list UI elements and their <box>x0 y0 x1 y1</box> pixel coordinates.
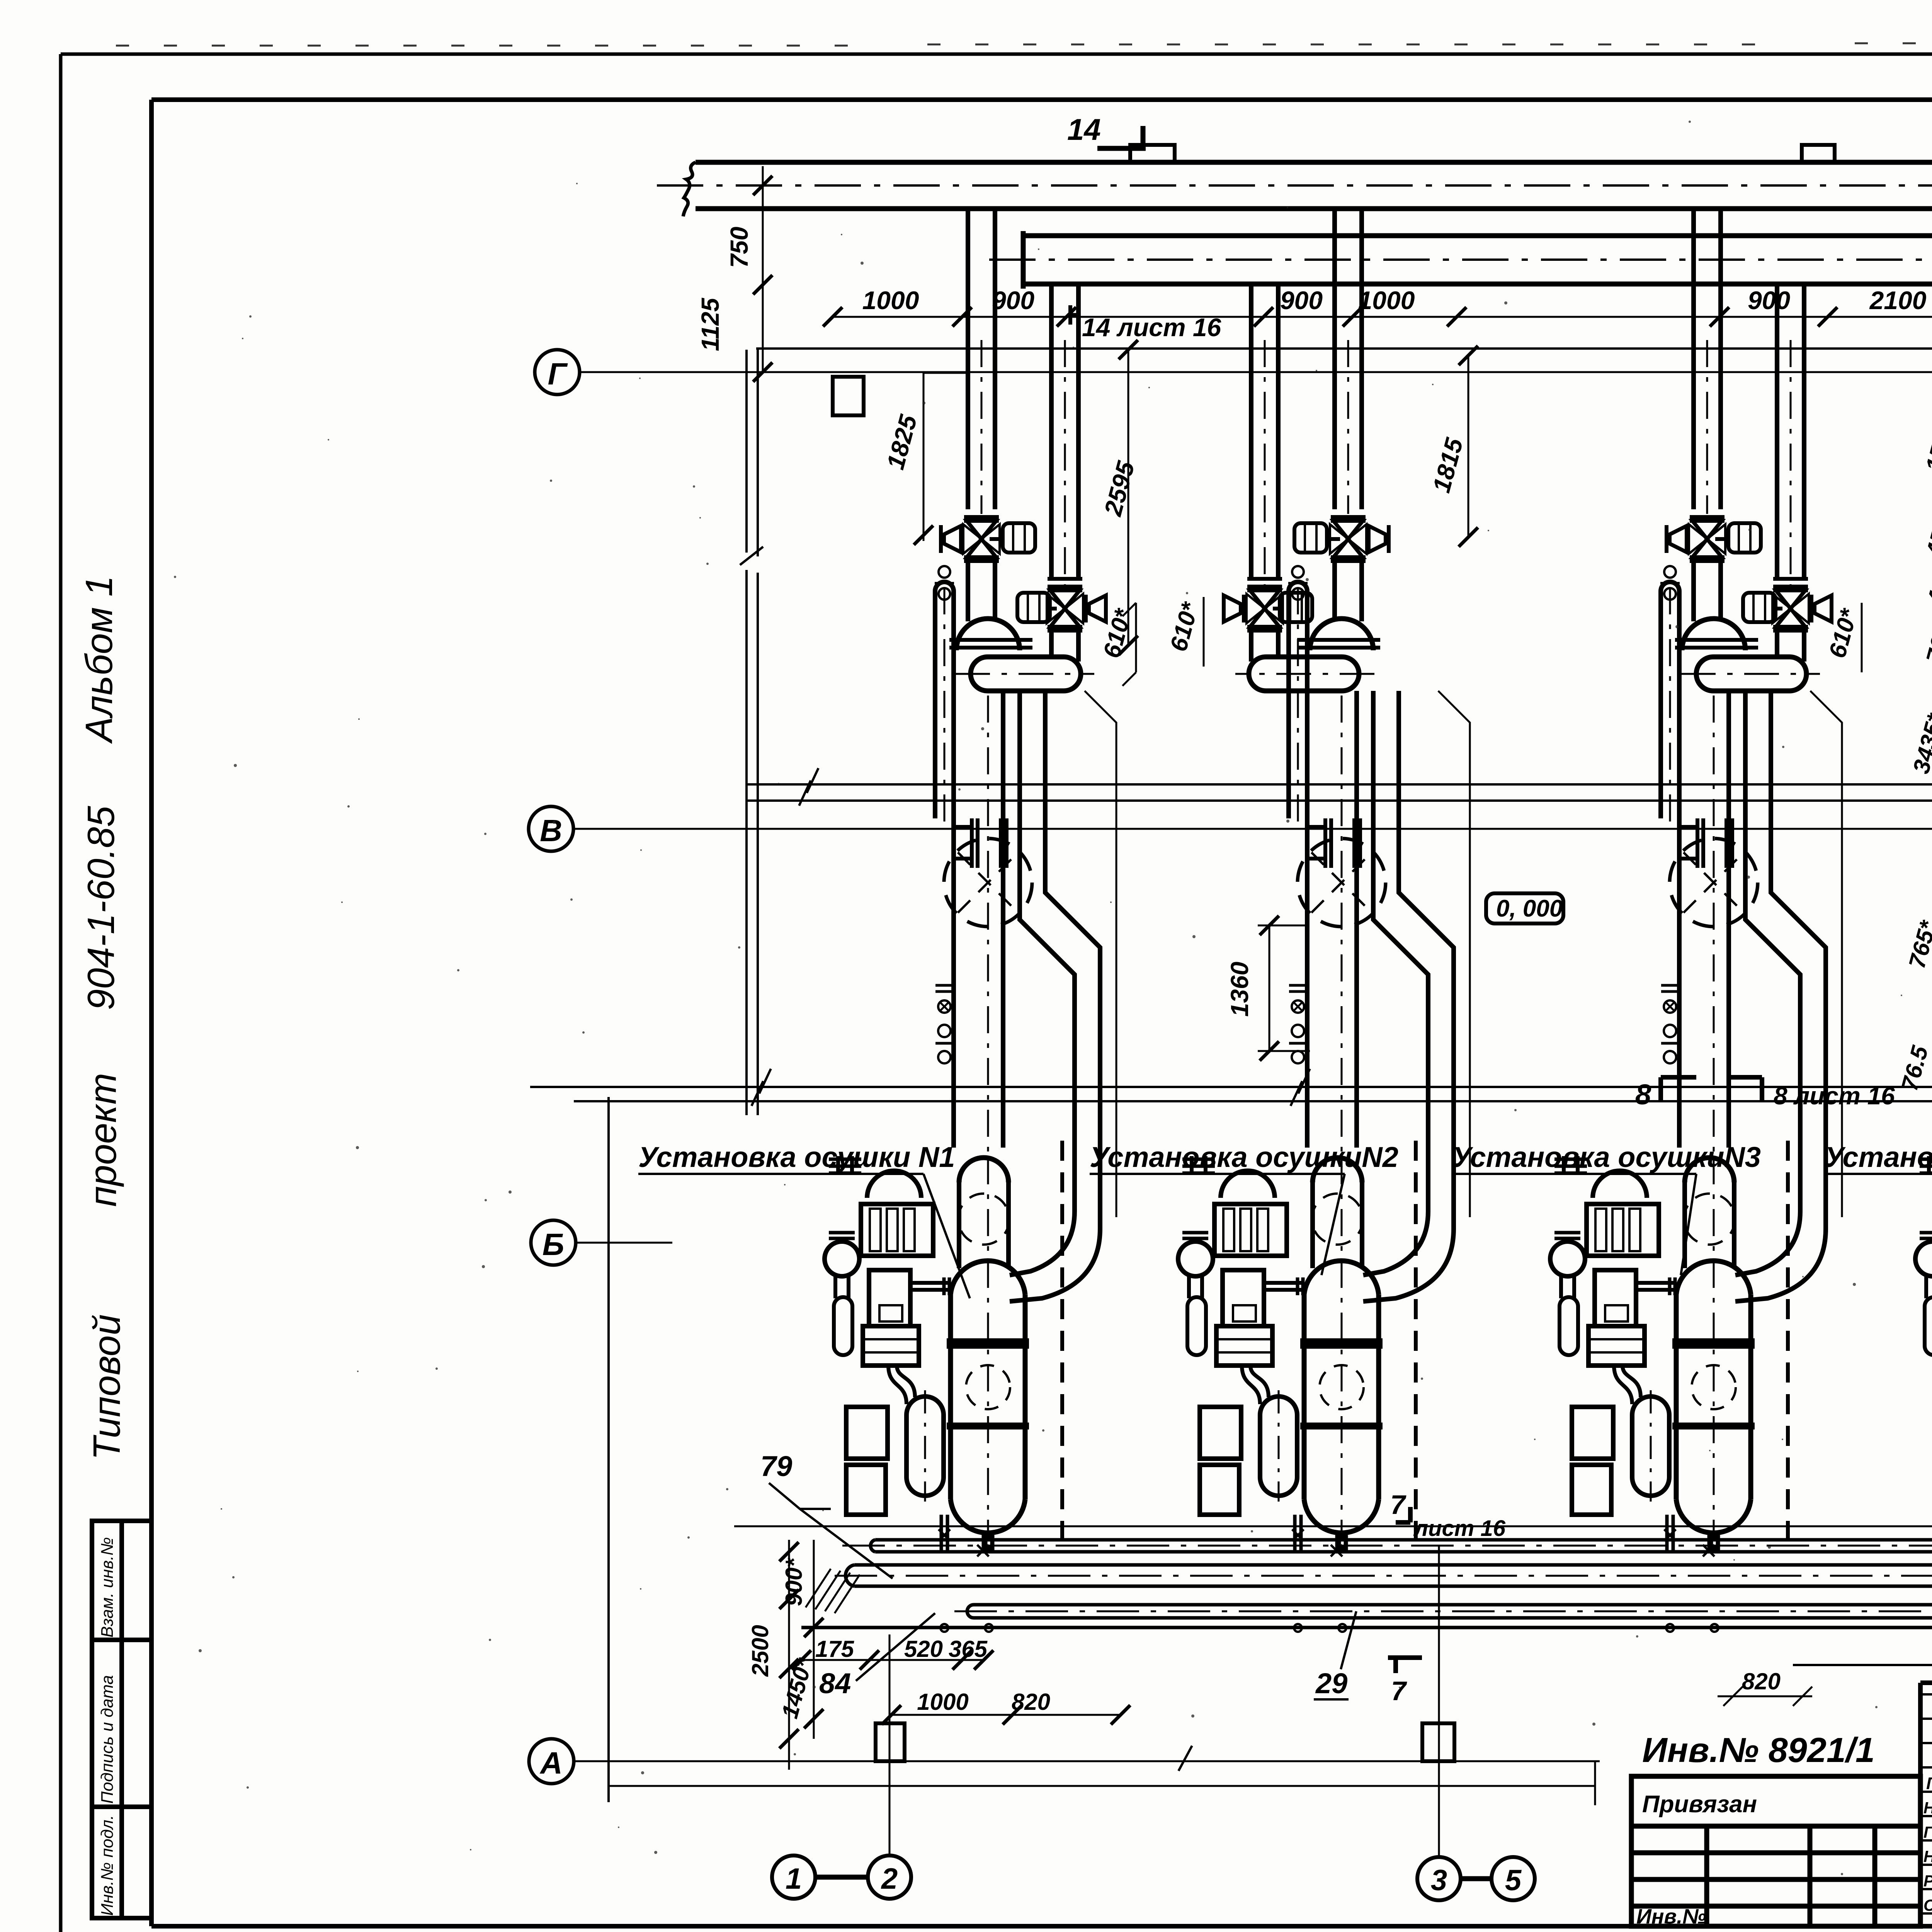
svg-text:Инв.№ подл.: Инв.№ подл. <box>98 1815 117 1916</box>
svg-text:1125: 1125 <box>696 298 724 351</box>
left storage stamp box <box>92 1521 151 1918</box>
svg-text:175: 175 <box>815 1636 855 1662</box>
svg-text:765*: 765* <box>1904 917 1932 971</box>
svg-text:820: 820 <box>1012 1689 1050 1715</box>
svg-text:Установка осушкиN2: Установка осушкиN2 <box>1090 1141 1398 1173</box>
svg-text:750: 750 <box>725 227 753 268</box>
left pipe end caps <box>845 1540 974 1618</box>
svg-text:2100: 2100 <box>1869 286 1927 315</box>
svg-text:В: В <box>540 813 562 848</box>
unit labels <box>638 1141 1932 1173</box>
axis A <box>529 1739 574 1784</box>
drying unit 3 <box>1550 340 1842 1632</box>
svg-text:900: 900 <box>992 286 1034 315</box>
svg-text:84: 84 <box>819 1667 851 1699</box>
svg-text:0, 000: 0, 000 <box>1496 895 1563 922</box>
svg-text:29: 29 <box>1315 1667 1347 1699</box>
left vertical wall line <box>607 1097 610 1802</box>
overhead pipe 2 (lower, ось на отм 5,565) <box>1023 231 1932 289</box>
svg-text:8: 8 <box>1635 1078 1651 1111</box>
axis Г <box>535 350 1932 395</box>
svg-text:ГИП: ГИП <box>1926 1774 1932 1793</box>
dim 1815 (unit3) <box>1468 355 1469 537</box>
column boxes on axis A <box>876 1723 905 1761</box>
svg-text:2: 2 <box>881 1862 898 1895</box>
svg-text:Привязан: Привязан <box>1642 1791 1757 1818</box>
hatch at manifold left end <box>806 1569 860 1613</box>
title block left tables <box>1631 1776 1920 1926</box>
svg-text:1000: 1000 <box>1358 286 1415 315</box>
svg-text:Б: Б <box>543 1227 565 1262</box>
svg-text:Установка осушки N1: Установка осушки N1 <box>638 1141 955 1173</box>
svg-text:1450*: 1450* <box>777 1655 818 1721</box>
drying unit 4 <box>1915 340 1932 1632</box>
overhead pipe 127 (upper) <box>683 158 1932 216</box>
svg-text:1815: 1815 <box>1427 435 1469 496</box>
svg-text:450*: 450* <box>1921 506 1932 560</box>
rotated dims right side <box>1896 374 1932 1094</box>
riser extensions above wall line <box>968 209 1932 350</box>
svg-text:лист 16: лист 16 <box>1413 1516 1506 1541</box>
grid verticals to circles <box>889 1546 1439 1858</box>
svg-text:7: 7 <box>1390 1490 1406 1520</box>
svg-text:Установка осушкиN3: Установка осушкиN3 <box>1452 1141 1761 1173</box>
svg-text:765*: 765* <box>1921 612 1932 666</box>
drying unit 2 (mirrored topworks) <box>1178 340 1470 1632</box>
svg-text:1360: 1360 <box>1226 962 1253 1017</box>
vertical dim 750 / 1125 at left <box>762 166 764 371</box>
svg-text:820: 820 <box>1742 1668 1781 1694</box>
bottom-left dimensions <box>789 1540 814 1770</box>
axis B (В) <box>529 806 573 851</box>
left vertical pipe pair with break <box>747 350 758 1115</box>
svg-text:400: 400 <box>1922 563 1932 608</box>
signature names <box>1923 1774 1932 1915</box>
svg-text:5: 5 <box>1505 1864 1522 1897</box>
svg-text:Г: Г <box>548 357 568 391</box>
svg-text:1825: 1825 <box>881 412 923 473</box>
svg-text:А: А <box>539 1746 563 1780</box>
svg-text:1000: 1000 <box>862 286 919 315</box>
svg-text:Инв.№ 8921/1: Инв.№ 8921/1 <box>1642 1731 1875 1770</box>
signature table grid <box>1920 1683 1932 1926</box>
left strip rotated titles <box>78 576 128 1460</box>
svg-text:Ст.инж.: Ст.инж. <box>1923 1896 1932 1914</box>
svg-text:520: 520 <box>904 1636 943 1662</box>
top dimension chain <box>833 316 1932 318</box>
pipe 127 centerline <box>657 184 1932 187</box>
svg-text:900*: 900* <box>781 1558 807 1606</box>
support tabs on pipe <box>1130 145 1835 162</box>
line at 4309 with break <box>1793 1664 1932 1666</box>
long horizontal pipes row 2 (section 8) <box>530 1087 1932 1101</box>
long horizontal pipes row 1 <box>746 784 1932 801</box>
svg-text:2595: 2595 <box>1099 458 1140 519</box>
svg-text:365: 365 <box>949 1636 988 1662</box>
axis Б <box>531 1220 576 1265</box>
svg-text:Альбом 1: Альбом 1 <box>78 576 120 744</box>
svg-text:14: 14 <box>1067 112 1101 146</box>
svg-text:1590: 1590 <box>1921 418 1932 474</box>
svg-text:Взам. инв.№: Взам. инв.№ <box>98 1537 117 1638</box>
dim 1360 at unit 2 <box>1258 925 1310 1051</box>
wall line <box>756 347 1932 350</box>
svg-text:проект: проект <box>82 1073 124 1207</box>
svg-text:14 лист 16: 14 лист 16 <box>1082 313 1222 342</box>
svg-text:900: 900 <box>1280 286 1323 315</box>
svg-text:Рук.гр.: Рук.гр. <box>1923 1872 1932 1890</box>
manifold pipes <box>801 1540 1932 1628</box>
svg-text:Нач.отд.: Нач.отд. <box>1923 1799 1932 1817</box>
drying unit 1 <box>825 340 1116 1632</box>
break marks <box>799 768 1932 806</box>
svg-text:79: 79 <box>760 1450 792 1482</box>
dims 610* near units <box>1098 599 1862 661</box>
svg-text:Гл.спец.: Гл.спец. <box>1923 1823 1932 1841</box>
svg-text:3: 3 <box>1431 1864 1447 1897</box>
svg-text:1: 1 <box>786 1862 802 1895</box>
svg-text:610*: 610* <box>1165 599 1204 654</box>
svg-text:8 лист 16: 8 лист 16 <box>1774 1082 1895 1110</box>
column boxes at Г <box>833 302 1932 472</box>
dim 2595 (unit1) <box>1128 350 1129 645</box>
svg-text:1000: 1000 <box>917 1689 968 1715</box>
section 7 marks <box>1396 1507 1410 1522</box>
svg-text:7: 7 <box>1391 1676 1407 1706</box>
elevation mark 0,000 <box>1486 893 1563 923</box>
svg-text:Установко осушкиN4: Установко осушкиN4 <box>1825 1141 1932 1173</box>
svg-text:Н.контр.: Н.контр. <box>1923 1847 1932 1866</box>
paper edge marks top <box>116 43 1932 46</box>
svg-text:2500: 2500 <box>747 1625 773 1677</box>
svg-text:Типовой: Типовой <box>85 1314 128 1460</box>
svg-text:Подпись и дата: Подпись и дата <box>98 1675 117 1804</box>
grid circles 1 2 3 5 <box>772 1855 1535 1900</box>
svg-text:Инв.№: Инв.№ <box>1636 1905 1706 1928</box>
foundation line <box>734 1526 1932 1527</box>
dim 1825 (unit1) <box>923 373 970 541</box>
svg-text:900: 900 <box>1748 286 1790 315</box>
svg-text:904-1-60.85: 904-1-60.85 <box>80 806 122 1010</box>
svg-text:3435*: 3435* <box>1908 710 1932 776</box>
